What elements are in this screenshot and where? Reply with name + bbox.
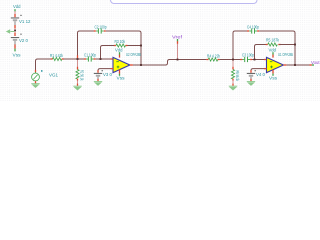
svg-text:C2 100p: C2 100p xyxy=(95,25,107,30)
wire xyxy=(36,59,52,71)
pin tick xyxy=(14,14,16,17)
svg-text:V1 12: V1 12 xyxy=(19,19,31,24)
pin tick xyxy=(104,30,106,32)
pin tick xyxy=(278,44,280,46)
capacitor C2 xyxy=(96,28,104,33)
wire xyxy=(14,11,16,14)
pin tick xyxy=(97,79,99,81)
pin tick xyxy=(206,59,208,61)
svg-text:V2 0: V2 0 xyxy=(19,38,29,43)
resistor R4 xyxy=(208,58,218,61)
pin tick xyxy=(14,32,16,36)
pin tick xyxy=(94,58,96,60)
junction xyxy=(140,64,142,66)
node tick xyxy=(119,52,121,55)
wire xyxy=(101,46,115,59)
wire noninverting input xyxy=(251,69,267,71)
svg-text:Vout: Vout xyxy=(311,60,320,65)
svg-text:R5 187k: R5 187k xyxy=(266,37,280,42)
pin tick xyxy=(232,79,234,81)
svg-text:Vdd: Vdd xyxy=(115,47,123,52)
capacitor C1 xyxy=(85,56,94,61)
wire xyxy=(233,31,248,59)
resistor R3 xyxy=(116,44,126,47)
pin tick xyxy=(114,45,116,47)
svg-text:R2 56.1k: R2 56.1k xyxy=(79,70,84,81)
pin tick xyxy=(119,55,121,58)
wire xyxy=(128,45,142,47)
junction xyxy=(177,59,179,61)
resistor R2 xyxy=(76,70,79,80)
svg-text:C1 100p: C1 100p xyxy=(84,53,96,58)
wire xyxy=(77,80,79,84)
pin tick xyxy=(111,58,113,60)
capacitor C4 xyxy=(249,28,257,33)
junction xyxy=(294,44,296,46)
svg-text:Vss: Vss xyxy=(117,75,126,80)
pin tick xyxy=(62,58,64,60)
wire noninverting input xyxy=(98,69,113,71)
wire xyxy=(220,59,242,61)
wire xyxy=(106,31,141,65)
junction node B xyxy=(232,59,234,61)
battery V3 xyxy=(94,70,103,79)
wire xyxy=(232,61,234,68)
pin tick xyxy=(272,55,274,58)
junction xyxy=(294,64,296,66)
wire xyxy=(64,58,86,60)
wire xyxy=(255,45,267,59)
svg-text:Vss: Vss xyxy=(269,75,278,80)
battery V2 xyxy=(11,34,22,45)
pin tick xyxy=(240,59,242,61)
svg-text:Vss: Vss xyxy=(13,53,22,58)
pin tick xyxy=(35,81,37,83)
svg-text:VG1: VG1 xyxy=(49,72,59,77)
pin tick xyxy=(266,44,268,46)
svg-text:V4 0: V4 0 xyxy=(256,72,266,77)
svg-text:C4 100p: C4 100p xyxy=(247,25,259,30)
svg-text:R1 4.42k: R1 4.42k xyxy=(50,53,64,58)
pin tick xyxy=(250,79,252,81)
ground xyxy=(31,84,39,88)
ground (mid-rail, pointing left) xyxy=(6,29,15,33)
wire output with step xyxy=(133,60,207,66)
pin tick xyxy=(126,45,128,47)
resistor R1 xyxy=(52,57,62,60)
op-amp U2 xyxy=(113,57,130,72)
pin tick xyxy=(35,70,37,73)
junction node A xyxy=(77,58,79,60)
wire xyxy=(177,44,179,60)
junction xyxy=(140,45,142,47)
ground xyxy=(229,86,237,90)
resistor R6 xyxy=(231,70,234,80)
pin tick xyxy=(264,68,267,70)
wire xyxy=(259,31,295,65)
pin tick xyxy=(84,58,86,60)
node tick xyxy=(35,72,37,73)
pin tick xyxy=(177,41,179,44)
pin tick xyxy=(247,30,249,32)
junction inverting node 2 xyxy=(254,59,256,61)
pin tick xyxy=(77,67,79,70)
svg-text:R6 56.1k: R6 56.1k xyxy=(235,71,240,82)
ground xyxy=(247,82,255,86)
wire xyxy=(252,59,266,61)
pin tick output xyxy=(283,64,286,66)
battery V4 xyxy=(247,70,256,79)
pin tick xyxy=(14,44,16,48)
node tick xyxy=(14,9,16,11)
source VG1 xyxy=(32,70,43,81)
svg-text:U1 OPA365: U1 OPA365 xyxy=(278,52,293,57)
pin tick xyxy=(250,59,252,61)
capacitor C3 xyxy=(242,57,250,62)
svg-text:Vdd: Vdd xyxy=(269,47,277,52)
pin tick xyxy=(14,25,16,29)
ground xyxy=(73,86,81,90)
wire xyxy=(232,80,234,84)
pin tick xyxy=(257,30,259,32)
pin tick xyxy=(51,58,53,60)
node tick xyxy=(312,64,314,66)
resistor R5 xyxy=(268,43,278,46)
wire xyxy=(279,44,295,46)
svg-text:R3 10k: R3 10k xyxy=(115,39,126,44)
svg-text:C3 100p: C3 100p xyxy=(242,52,254,57)
wire output xyxy=(286,64,310,66)
junction inverting node xyxy=(100,58,102,60)
pin tick xyxy=(111,68,113,70)
pin tick xyxy=(77,84,79,86)
svg-text:R4 4.22k: R4 4.22k xyxy=(207,53,221,58)
svg-text:U2 OPA365: U2 OPA365 xyxy=(126,52,141,57)
wire xyxy=(77,60,79,67)
node tick xyxy=(177,39,179,41)
pin tick xyxy=(77,79,79,81)
pin tick output xyxy=(130,64,133,66)
svg-text:Vdd: Vdd xyxy=(13,4,21,9)
pin tick xyxy=(232,84,234,86)
node tick xyxy=(119,74,121,76)
pin tick xyxy=(77,55,79,58)
dialog box bottom edge xyxy=(111,0,258,4)
wire xyxy=(96,58,113,60)
pin tick xyxy=(310,64,312,66)
pin tick Vss xyxy=(119,70,121,74)
node tick xyxy=(272,74,274,76)
pin tick xyxy=(218,59,220,61)
ground xyxy=(94,82,102,86)
pin tick xyxy=(264,59,267,61)
pin tick xyxy=(94,30,96,32)
svg-text:Vref: Vref xyxy=(172,34,183,39)
junction xyxy=(14,30,16,32)
node tick xyxy=(14,49,16,52)
pin tick Vss xyxy=(272,70,274,74)
pin tick xyxy=(232,67,234,70)
svg-text:V3 0: V3 0 xyxy=(103,72,113,77)
node tick xyxy=(272,52,274,55)
wire xyxy=(78,31,95,58)
op-amp U1 xyxy=(267,57,284,72)
battery V1 xyxy=(11,15,22,25)
